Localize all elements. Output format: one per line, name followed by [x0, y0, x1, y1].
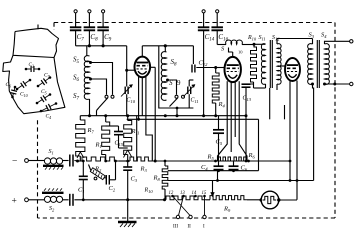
svg-text:II: II [188, 225, 192, 230]
svg-text:C7: C7 [44, 73, 51, 80]
svg-text:S1: S1 [49, 149, 54, 156]
svg-text:C2: C2 [29, 63, 34, 69]
svg-text:C10: C10 [127, 98, 136, 105]
svg-text:10: 10 [238, 50, 243, 55]
svg-text:S2: S2 [49, 206, 55, 213]
svg-text:III: III [173, 225, 178, 230]
svg-text:C4: C4 [46, 114, 52, 121]
svg-text:13: 13 [180, 191, 185, 196]
svg-text:R10: R10 [144, 188, 154, 195]
svg-text:15: 15 [202, 191, 207, 196]
svg-text:14: 14 [192, 191, 197, 196]
svg-text:R10: R10 [247, 35, 257, 42]
svg-text:C13: C13 [243, 96, 252, 103]
svg-text:+: + [12, 197, 17, 207]
svg-text:S11: S11 [259, 35, 266, 42]
svg-text:−: − [12, 157, 17, 167]
svg-text:9: 9 [177, 79, 181, 87]
svg-text:C11: C11 [191, 98, 199, 105]
svg-text:12: 12 [169, 191, 174, 196]
svg-text:C15: C15 [115, 141, 124, 148]
svg-text:C10: C10 [20, 92, 28, 99]
svg-text:C6: C6 [6, 82, 12, 89]
svg-text:C5: C5 [41, 89, 47, 96]
